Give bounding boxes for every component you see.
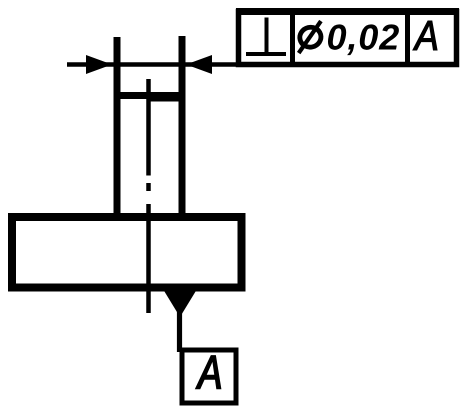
datum reference letter in frame (413, 21, 437, 50)
pin right edge / extension line (179, 36, 186, 217)
left dimension arrowhead (86, 55, 112, 74)
right dimension arrowhead (186, 55, 212, 74)
datum box (182, 350, 236, 403)
datum letter A (196, 356, 221, 389)
diameter symbol (298, 21, 323, 53)
feature control frame divider 2 (405, 9, 410, 67)
feature control frame outer box (239, 12, 457, 65)
tolerance value text (328, 24, 399, 55)
feature control frame divider 1 (290, 9, 295, 67)
axis centerline (146, 79, 151, 313)
perpendicularity symbol (246, 18, 286, 55)
pin top edge (114, 92, 186, 99)
datum triangle (162, 288, 198, 318)
pin left edge / extension line (114, 37, 121, 217)
base plate rectangle (12, 217, 242, 288)
dimension leader line (67, 62, 238, 67)
datum leader line (177, 310, 182, 352)
